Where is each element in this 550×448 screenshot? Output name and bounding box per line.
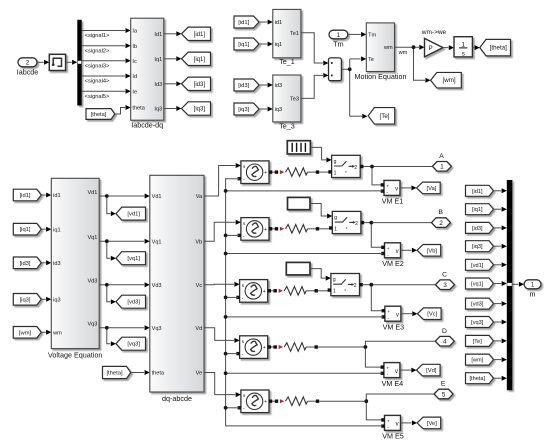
goto tag [id1]: [182, 27, 211, 40]
svg-text:id3: id3: [275, 83, 282, 89]
svg-text:[theta]: [theta]: [469, 376, 485, 382]
junction bus VS4: [224, 352, 228, 356]
svg-text:theta: theta: [132, 106, 145, 112]
wire branch to [vd1]: [107, 196, 111, 214]
wire from-theta to Iabcde-dq theta input: [115, 108, 125, 115]
wire from-[iq3] to Voltage Equation: [41, 298, 45, 300]
svg-text:g: g: [334, 159, 337, 165]
svg-text:<signal1>: <signal1>: [85, 33, 110, 39]
svg-text:5: 5: [442, 391, 446, 398]
svg-text:Id: Id: [132, 74, 137, 80]
svg-text:2: 2: [354, 283, 357, 289]
svg-text:id3: id3: [53, 261, 60, 267]
svg-text:1: 1: [337, 32, 341, 39]
goto tag [vd1]: [116, 207, 146, 220]
svg-text:dq-abcde: dq-abcde: [162, 394, 192, 403]
wire Vd to VS4 s input: [204, 328, 234, 341]
svg-text:[Va]: [Va]: [426, 186, 436, 192]
breaker switch 1: [332, 155, 361, 177]
junction row 1: [370, 165, 374, 169]
svg-text:Vd1: Vd1: [87, 190, 97, 196]
svg-text:wm: wm: [52, 331, 62, 337]
wire generator to breaker 2 g input: [310, 204, 327, 216]
wire demux out 4 to Iabcde-dq: [82, 75, 125, 77]
svg-text:[vq1]: [vq1]: [127, 256, 140, 262]
wire Ve to VS5 s input: [204, 373, 235, 395]
wire VS2 plus to resistor: [272, 228, 275, 230]
wire from-[wm] to mux: [494, 359, 502, 361]
wire generator to breaker 1 g input: [310, 147, 326, 160]
svg-text:Iq1: Iq1: [154, 57, 162, 63]
svg-text:+: +: [386, 184, 389, 189]
wire demux out 1 to Iabcde-dq: [82, 30, 125, 32]
wire resistor to junction row 4: [318, 346, 366, 348]
svg-text:Vc: Vc: [196, 283, 203, 289]
wire VS2 minus to bus: [226, 234, 240, 236]
wire from-[Te] to mux: [494, 340, 502, 342]
junction bus VM2: [224, 252, 228, 256]
svg-text:[vd1]: [vd1]: [471, 263, 484, 269]
outport 1 m: [524, 280, 541, 289]
wire from-[id3] to mux: [494, 227, 502, 229]
connection port D (4): [435, 336, 454, 346]
wire from-[iq3] to mux: [494, 245, 502, 247]
svg-text:[Vc]: [Vc]: [427, 312, 437, 318]
svg-text:[iq1]: [iq1]: [194, 57, 206, 63]
from tag [wm] (Voltage Equation): [13, 327, 41, 339]
voltage measurement VM E4: [384, 363, 400, 378]
svg-text:2: 2: [354, 165, 357, 171]
svg-text:P: P: [429, 46, 433, 52]
wire from-theta to dq-abcde: [131, 372, 144, 374]
wire Voltage Equation V1 to dq-abcde: [99, 195, 144, 197]
svg-text:m: m: [530, 289, 536, 298]
svg-text:g: g: [333, 277, 336, 283]
wire resistor to junction row 5: [319, 400, 366, 402]
svg-text:Vq3: Vq3: [152, 326, 162, 332]
controlled voltage source VS3: [240, 280, 268, 303]
svg-text:1: 1: [440, 164, 444, 171]
svg-text:[id1]: [id1]: [472, 189, 483, 195]
svg-text:[wm]: [wm]: [19, 330, 32, 336]
from tag iq1 (Te_1): [234, 38, 259, 50]
wire from-[iq1] to mux: [494, 208, 502, 210]
svg-text:wm: wm: [398, 50, 408, 56]
junction V3: [105, 283, 109, 287]
wire VS3 minus to bus: [226, 296, 238, 298]
svg-text:3: 3: [443, 282, 447, 289]
wire resistor to breaker 2: [319, 228, 330, 230]
wire signal-conversion to demux: [66, 61, 72, 63]
resistor R4: [284, 343, 306, 352]
svg-text:[vd1]: [vd1]: [127, 212, 140, 218]
resistor R5: [286, 397, 308, 406]
svg-text:[wm]: [wm]: [471, 358, 483, 364]
wire inport2 to signal-conversion: [37, 61, 44, 63]
svg-text:[Te]: [Te]: [473, 339, 482, 345]
svg-text:[id1]: [id1]: [194, 32, 206, 38]
from tag [iq3] (Voltage Equation): [13, 294, 41, 306]
wire VS5 plus to resistor: [272, 400, 275, 402]
wire VM E3 to goto [Vc]: [401, 313, 412, 315]
wire Tm to Motion Equation: [348, 33, 361, 35]
wire from-id3 to Te_3: [259, 84, 267, 86]
svg-text:2: 2: [439, 220, 443, 227]
svg-text:[Vb]: [Vb]: [427, 248, 438, 254]
svg-text:v: v: [396, 313, 399, 319]
junction V4: [105, 326, 109, 330]
svg-text:VM E4: VM E4: [382, 379, 404, 388]
svg-text:[iq3]: [iq3]: [194, 107, 206, 113]
from tag id3 (Te_3): [234, 79, 259, 91]
svg-text:wm->we: wm->we: [421, 29, 447, 36]
wire branch to [vq1]: [107, 241, 111, 258]
svg-text:Iabcde-dq: Iabcde-dq: [131, 121, 163, 130]
inport 1 Tm: [329, 30, 348, 39]
from tag [id3] (mux): [466, 222, 494, 233]
connection port A (1): [432, 162, 451, 172]
voltage measurement VM E3: [385, 306, 401, 321]
from tag id1 (Te_1): [234, 16, 259, 28]
wire Iabcde-dq [id1] out: [164, 33, 176, 35]
junction bus VM1: [224, 189, 228, 193]
svg-text:Te1: Te1: [290, 31, 299, 37]
wire Iabcde-dq [iq3] out: [164, 108, 176, 110]
svg-text:1: 1: [334, 171, 337, 177]
svg-text:[vq1]: [vq1]: [471, 282, 484, 288]
from tag [iq3] (mux): [466, 241, 494, 252]
controlled voltage source VS2: [241, 218, 269, 241]
svg-text:VM E1: VM E1: [382, 197, 404, 206]
wire Te1 to sum: [301, 33, 323, 63]
wire breaker 3 to port and VM: [362, 284, 371, 286]
junction row 5: [364, 399, 368, 403]
resistor R3: [284, 287, 306, 296]
wire from-[vq3] to mux: [494, 321, 502, 323]
wire wm out to gain and goto wm: [395, 46, 419, 48]
svg-text:[vq3]: [vq3]: [471, 320, 484, 326]
wire resistor to breaker 1: [319, 171, 329, 173]
svg-text:[iq1]: [iq1]: [238, 42, 249, 48]
wire Voltage Equation V4 to dq-abcde: [99, 327, 144, 329]
svg-text:iq1: iq1: [275, 42, 282, 48]
svg-text:Vq1: Vq1: [87, 235, 97, 241]
wire branch to [vq3]: [107, 328, 111, 344]
pulse generator: [287, 141, 310, 154]
connection port E (5): [434, 389, 453, 399]
svg-text:[wm]: [wm]: [443, 77, 456, 84]
svg-text:+: +: [264, 227, 267, 233]
wire from-[id3] to Voltage Equation: [41, 262, 45, 264]
svg-text:Vd1: Vd1: [152, 194, 162, 200]
block Motion Equation: [366, 23, 394, 72]
svg-text:Te_1: Te_1: [279, 57, 295, 66]
svg-text:+: +: [263, 289, 266, 295]
from tag [id1] (Voltage Equation): [13, 189, 41, 201]
svg-text:Te: Te: [368, 57, 374, 63]
svg-text:E: E: [441, 381, 446, 388]
wire VS5 minus to bus: [226, 407, 240, 409]
svg-text:2: 2: [26, 60, 30, 67]
step source row 3: [286, 262, 310, 275]
from tag [theta] (mux): [466, 373, 494, 384]
junction wm: [412, 45, 416, 49]
wire VS3 plus to resistor: [271, 290, 274, 292]
svg-text:Ie: Ie: [132, 89, 137, 95]
svg-text:[iq1]: [iq1]: [472, 207, 483, 213]
svg-text:+: +: [264, 170, 267, 176]
svg-text:Tm: Tm: [333, 39, 343, 48]
demux bar: [77, 20, 82, 106]
svg-text:1: 1: [334, 227, 337, 233]
wire VM E2 to goto [Vb]: [401, 249, 412, 251]
breaker switch 3: [331, 274, 360, 296]
svg-text:iq3: iq3: [53, 298, 60, 304]
svg-text:[Vd]: [Vd]: [426, 368, 437, 374]
junction bus VS5: [224, 406, 228, 410]
wire Iabcde-dq [id3] out: [164, 83, 176, 85]
svg-text:[theta]: [theta]: [490, 45, 507, 52]
voltage measurement VM E1: [384, 180, 400, 195]
block dq-abcde: [150, 175, 204, 392]
block Iabcde-dq: [131, 18, 164, 120]
connection port B (2): [432, 218, 451, 228]
wire from-[theta] to mux: [494, 377, 502, 379]
goto tag [Vb]: [417, 245, 441, 257]
goto tag [Vc]: [418, 308, 442, 320]
wire demux out 5 to Iabcde-dq: [82, 90, 125, 92]
junction row 4: [364, 345, 368, 349]
wire breaker 1 to port and VM: [363, 166, 372, 168]
svg-text:Id3: Id3: [154, 82, 162, 88]
svg-text:C: C: [442, 271, 447, 278]
wire Vb to VS2 s input: [204, 222, 235, 241]
svg-text:[iq3]: [iq3]: [20, 297, 31, 303]
svg-text:iq1: iq1: [53, 227, 60, 233]
controlled voltage source VS1: [241, 161, 269, 184]
signal conversion block: [49, 54, 65, 70]
svg-text:Ib: Ib: [132, 44, 137, 50]
from tag theta (dq-abcde): [103, 366, 131, 378]
controlled voltage source VS4: [240, 336, 268, 359]
wire integrator to goto theta: [472, 47, 474, 49]
wire bus to VM E2 minus: [226, 253, 383, 255]
wire Te3 to sum: [301, 75, 323, 98]
svg-text:[theta]: [theta]: [91, 112, 107, 118]
from tag [id3] (Voltage Equation): [13, 257, 41, 269]
wire Voltage Equation V3 to dq-abcde: [99, 284, 144, 286]
wire Va to VS1 s input: [204, 166, 235, 197]
svg-text:Va: Va: [196, 194, 203, 200]
svg-text:1: 1: [333, 289, 336, 295]
from tag [vd1] (mux): [466, 259, 494, 270]
svg-text:2: 2: [355, 221, 358, 227]
svg-text:v: v: [396, 249, 399, 255]
svg-text:VM E5: VM E5: [382, 432, 404, 441]
wire demux out 3 to Iabcde-dq: [82, 60, 125, 62]
voltage measurement VM E5: [385, 415, 401, 430]
svg-text:[Ve]: [Ve]: [427, 421, 437, 427]
svg-text:Te3: Te3: [290, 97, 299, 103]
wire Voltage Equation V2 to dq-abcde: [99, 240, 144, 242]
goto tag theta (top right): [480, 39, 511, 56]
goto tag [id3]: [182, 77, 211, 90]
svg-text:Vb: Vb: [195, 239, 202, 245]
svg-text:VM E2: VM E2: [382, 259, 404, 268]
wire VM E5 to goto [Ve]: [401, 422, 412, 424]
junction bus VS3: [224, 296, 228, 300]
svg-text:<signal3>: <signal3>: [85, 63, 110, 69]
svg-text:[id3]: [id3]: [238, 83, 249, 89]
from tag [vq1] (mux): [466, 278, 494, 289]
wire from-id1 to Te_1: [259, 21, 267, 23]
from tag [vq3] (mux): [466, 317, 494, 328]
from tag [iq1] (Voltage Equation): [13, 223, 41, 235]
block Voltage Equation: [51, 178, 99, 348]
junction bus VM3: [224, 315, 228, 319]
wire Vc to VS3 s input: [204, 283, 234, 286]
wire gain to integrator: [443, 47, 449, 49]
junction V1: [105, 194, 109, 198]
from tag theta (top): [86, 109, 115, 120]
junction row 2: [369, 221, 373, 225]
svg-text:v: v: [395, 369, 398, 375]
step source row 2: [288, 197, 311, 209]
junction bus VM4: [224, 371, 228, 375]
svg-text:+: +: [263, 345, 266, 351]
wire from-[vd1] to mux: [494, 264, 502, 266]
svg-text:[id3]: [id3]: [194, 82, 206, 88]
svg-text:theta: theta: [152, 371, 165, 377]
wire from-iq1 to Te_1: [259, 43, 267, 45]
svg-text:Id1: Id1: [154, 32, 162, 38]
svg-text:Vd3: Vd3: [152, 283, 162, 289]
wire VS4 minus to bus: [226, 353, 238, 355]
svg-text:g: g: [334, 215, 337, 221]
wire sum to Motion Equation Te and goto Te: [341, 68, 349, 70]
goto tag Te: [368, 108, 395, 125]
sum block: [329, 58, 342, 81]
from tag [Te] (mux): [466, 335, 494, 346]
resistor R1: [286, 168, 308, 177]
wire VM E4 to goto [Vd]: [400, 369, 411, 371]
svg-text:+: +: [264, 399, 267, 405]
svg-text:[id3]: [id3]: [20, 261, 31, 267]
svg-text:Vq3: Vq3: [87, 322, 97, 328]
svg-text:Iabcde: Iabcde: [17, 67, 39, 76]
svg-text:Vd: Vd: [195, 326, 202, 332]
wire from-iq3 to Te_3: [259, 108, 267, 110]
goto tag [vq1]: [116, 252, 146, 265]
svg-text:[Te]: [Te]: [380, 113, 390, 120]
wire from-[vd3] to mux: [494, 303, 502, 305]
svg-text:Vq1: Vq1: [152, 239, 162, 245]
goto tag [iq3]: [182, 102, 211, 115]
wire bus to VM E3 minus: [226, 316, 384, 318]
goto tag [vq3]: [116, 337, 146, 350]
from tag [id1] (mux): [466, 185, 494, 196]
svg-text:Motion Equation: Motion Equation: [355, 72, 407, 81]
svg-text:<signal4>: <signal4>: [85, 79, 110, 85]
controlled voltage source VS5: [241, 390, 269, 413]
svg-text:+: +: [387, 310, 390, 315]
wire from-[wm] to Voltage Equation: [41, 331, 45, 333]
svg-text:[id3]: [id3]: [472, 226, 483, 232]
goto tag [Ve]: [417, 417, 441, 429]
wire resistor to breaker 3: [318, 290, 328, 292]
voltage measurement VM E2: [385, 243, 401, 258]
wire bus to VM E4 minus: [226, 372, 383, 374]
svg-text:+: +: [386, 367, 389, 372]
svg-text:Iq3: Iq3: [154, 107, 162, 113]
svg-text:<signal2>: <signal2>: [85, 48, 110, 54]
junction row 3: [369, 283, 373, 287]
mux bar: [507, 180, 513, 390]
block Te_3: [273, 75, 301, 122]
svg-text:Voltage Equation: Voltage Equation: [48, 351, 102, 360]
junction V2: [105, 239, 109, 243]
from tag [iq1] (mux): [466, 204, 494, 215]
svg-text:VM E3: VM E3: [383, 322, 405, 331]
svg-text:Tm: Tm: [368, 33, 376, 39]
svg-text:+: +: [387, 419, 390, 424]
goto tag [Vd]: [417, 364, 441, 376]
svg-text:v: v: [396, 422, 399, 428]
block Te_1: [273, 9, 301, 57]
wire bus to VM E1 minus: [226, 190, 383, 192]
svg-text:[theta]: [theta]: [106, 371, 123, 377]
svg-text:v: v: [395, 187, 398, 193]
svg-text:A: A: [439, 153, 444, 160]
gain wm->we: [425, 38, 443, 57]
goto tag [iq1]: [182, 52, 211, 65]
svg-text:4: 4: [443, 339, 447, 346]
from tag [vd3] (mux): [466, 298, 494, 309]
svg-text:iq3: iq3: [275, 107, 282, 113]
goto tag [vd3]: [116, 295, 146, 308]
goto tag wm: [431, 72, 462, 88]
svg-text:<signal5>: <signal5>: [85, 94, 110, 100]
svg-text:D: D: [442, 328, 447, 335]
svg-text:[vd3]: [vd3]: [127, 300, 140, 306]
wire branch to [vd3]: [107, 285, 111, 302]
svg-text:[id1]: [id1]: [20, 193, 31, 199]
inport 2 Iabcde: [18, 58, 37, 67]
from tag [wm] (mux): [466, 354, 494, 365]
wire from-[id1] to mux: [494, 190, 502, 192]
svg-text:id1: id1: [275, 20, 282, 26]
resistor R2: [286, 225, 308, 234]
integrator 1/s: [454, 37, 472, 57]
connection port C (3): [436, 280, 455, 290]
svg-text:[iq3]: [iq3]: [472, 244, 483, 250]
wire VS1 plus to resistor: [272, 171, 275, 173]
svg-text:Vd3: Vd3: [87, 279, 97, 285]
wire VM E1 to goto [Va]: [400, 187, 411, 189]
svg-text:[id1]: [id1]: [238, 20, 249, 26]
wire VS4 plus to resistor: [271, 346, 274, 348]
svg-text:[iq1]: [iq1]: [20, 227, 31, 233]
svg-text:[vq3]: [vq3]: [127, 342, 140, 348]
svg-text:Ic: Ic: [132, 59, 137, 65]
wire from-[iq1] to Voltage Equation: [41, 228, 45, 230]
wire from-[id1] to Voltage Equation: [41, 194, 45, 196]
svg-text:1: 1: [461, 41, 465, 48]
svg-text:[iq3]: [iq3]: [238, 107, 249, 113]
svg-text:Te_3: Te_3: [279, 121, 295, 130]
wire mux to outport m: [512, 283, 518, 285]
breaker switch 2: [332, 211, 361, 233]
